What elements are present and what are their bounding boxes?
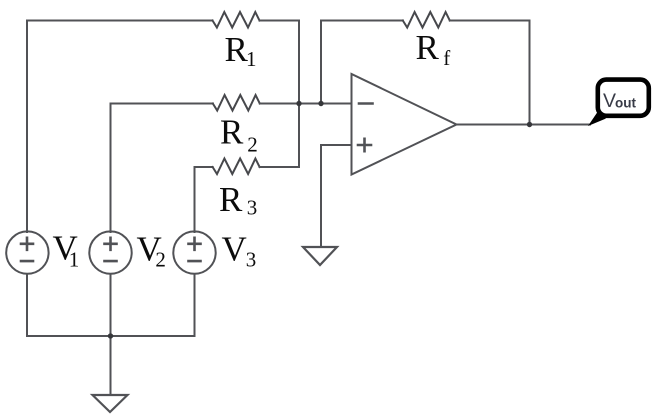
svg-text:V: V (222, 230, 247, 269)
wire feedback from node A up and right to Rf (321, 21, 403, 104)
wire R2 left lead and V2 top lead (111, 104, 213, 233)
wire R3 right lead to node A vertical (260, 166, 299, 168)
ground (op-amp + input) (303, 247, 337, 265)
svg-text:1: 1 (69, 247, 80, 271)
svg-text:3: 3 (246, 248, 257, 272)
voltage source V1 (6, 231, 48, 273)
svg-text:out: out (615, 96, 636, 111)
resistor R2 (213, 95, 260, 111)
svg-text:2: 2 (247, 133, 258, 157)
svg-text:R: R (219, 180, 243, 219)
wire V3 bottom to ground bus (194, 274, 196, 336)
node A junction dot (296, 101, 301, 106)
resistor R3 (213, 159, 260, 175)
node output junction dot (527, 122, 532, 127)
Vout callout tail (588, 112, 606, 126)
svg-text:1: 1 (246, 47, 257, 71)
wire op-amp output to Vout (457, 124, 591, 126)
wire V2 bottom to ground bus and down to ground (110, 274, 112, 395)
op-amp minus pin symbol (359, 102, 373, 105)
svg-text:f: f (443, 46, 450, 70)
wire V1 to R1 (left loop) (27, 21, 213, 233)
svg-text:R: R (225, 30, 249, 69)
node feedback junction dot (318, 101, 323, 106)
wire V1 bottom to ground bus (26, 274, 28, 336)
Vout callout box (598, 80, 649, 116)
svg-text:R: R (220, 113, 244, 152)
svg-text:2: 2 (155, 247, 166, 271)
voltage source V3 (173, 231, 215, 273)
resistor Rf (403, 12, 450, 28)
voltage source V2 (89, 231, 131, 273)
wire R1 right to node A vertical (260, 21, 300, 168)
resistor R1 (213, 12, 260, 28)
wire R3 left lead and V3 top lead (195, 167, 213, 232)
op-amp U1 (352, 74, 457, 175)
svg-text:3: 3 (247, 196, 257, 220)
op-amp plus pin symbol (358, 139, 371, 151)
wire Rf right down to output node (450, 21, 530, 125)
wire op-amp noninverting input to ground (321, 145, 352, 247)
wire R2 right to op-amp inverting input (260, 103, 352, 105)
node ground-bus junction dot (108, 333, 113, 338)
ground (bottom) (93, 395, 128, 412)
svg-text:R: R (416, 28, 440, 67)
wire ground bus (27, 335, 195, 337)
